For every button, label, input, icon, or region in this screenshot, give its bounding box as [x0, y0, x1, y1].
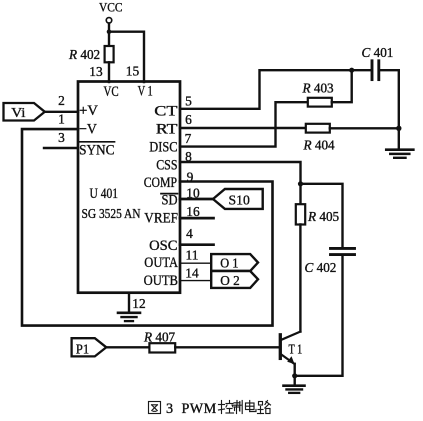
wire VCC stem to R402 [108, 24, 110, 46]
wire R407 to T1 base [175, 346, 279, 348]
resistor R404 [303, 124, 336, 153]
node junction at right ground [396, 126, 401, 131]
svg-text:7: 7 [185, 131, 192, 146]
svg-text:SYNC: SYNC [79, 142, 114, 158]
resistor R402 [68, 46, 114, 62]
svg-text:OUTA: OUTA [144, 255, 178, 271]
connector Vi [4, 103, 45, 121]
wire R403 right up to C401 node [332, 70, 352, 102]
wire VCC branch to pin 15 [109, 32, 144, 82]
svg-text:RT: RT [156, 121, 178, 137]
svg-text:8: 8 [185, 149, 192, 164]
node junction at C401 left [349, 68, 354, 73]
svg-text:U 401: U 401 [90, 186, 119, 202]
svg-text:O 1: O 1 [220, 257, 238, 272]
wire feedback loop pin 1 to COMP pin 9 [22, 129, 273, 326]
resistor R407 [143, 330, 176, 353]
svg-text:VC: VC [104, 84, 119, 100]
svg-text:R 402: R 402 [68, 47, 100, 62]
resistor R405 [296, 204, 340, 224]
char 控 [219, 401, 234, 414]
wire Vi to pin 2 [45, 111, 78, 113]
svg-text:3: 3 [166, 401, 173, 417]
svg-text:V 1: V 1 [138, 84, 153, 100]
wire C402 bottom to emitter node [297, 256, 343, 376]
wire C401 right down to ground node [380, 70, 399, 128]
svg-text:PWM: PWM [182, 401, 217, 417]
wire junction to C402 top [301, 184, 343, 247]
svg-text:3: 3 [58, 130, 65, 145]
wire OUTA pin 11 to O1 [180, 262, 211, 264]
IC U401 SG3525AN [78, 82, 180, 293]
char 图 [149, 402, 161, 414]
svg-text:SD: SD [162, 192, 178, 208]
wire pin 12 to ground [128, 293, 130, 312]
svg-text:12: 12 [132, 296, 145, 311]
node VCC terminal [99, 1, 123, 24]
wire CSS pin 8 to R405 [180, 162, 301, 204]
wire P1 to R407 [106, 346, 149, 348]
svg-text:1: 1 [58, 111, 65, 126]
wire DISC pin 7 up to R403 [180, 102, 308, 146]
svg-text:COMP: COMP [144, 175, 177, 191]
svg-text:OUTB: OUTB [144, 273, 179, 289]
connector O1 [211, 254, 258, 271]
svg-text:15: 15 [126, 63, 140, 78]
node junction dot below VCC [107, 29, 112, 34]
connector O2 [211, 271, 258, 289]
svg-text:P1: P1 [76, 342, 89, 357]
resistor R403 [302, 81, 335, 107]
wire SD pin 10 to S10 [180, 198, 214, 201]
svg-text:OSC: OSC [149, 238, 177, 254]
wire R402 to pin 13 [108, 62, 110, 82]
svg-text:CSS: CSS [156, 158, 177, 174]
svg-text:11: 11 [186, 247, 199, 262]
svg-text:14: 14 [185, 266, 199, 281]
wire OSC pin 4 stub [180, 243, 214, 246]
wire T1 emitter down to node [294, 364, 296, 376]
wire OUTB pin 14 to O2 [180, 280, 211, 282]
connector P1 [72, 338, 107, 356]
wire VREF pin 16 stub [180, 217, 214, 220]
capacitor C401 [352, 45, 394, 80]
svg-text:DISC: DISC [149, 139, 177, 155]
svg-text:VCC: VCC [99, 1, 123, 15]
char 制 [233, 401, 242, 414]
svg-text:VREF: VREF [144, 211, 178, 227]
connector S10 [213, 189, 263, 209]
node emitter junction [292, 373, 297, 378]
svg-text:−V: −V [79, 122, 97, 138]
ground right of R404/C401 [386, 128, 413, 158]
ground under T1 [284, 376, 305, 393]
char 电 [246, 401, 257, 412]
svg-text:C 402: C 402 [305, 260, 337, 275]
svg-text:R 405: R 405 [307, 209, 340, 224]
svg-text:9: 9 [187, 169, 194, 184]
capacitor C402 [305, 248, 355, 274]
svg-text:Vi: Vi [11, 106, 25, 121]
wire RT pin 6 to R404 [180, 127, 306, 129]
svg-text:SG 3525 AN: SG 3525 AN [82, 206, 141, 221]
svg-text:O 2: O 2 [220, 274, 240, 289]
ground under pin 12 [118, 313, 140, 321]
svg-text:C 401: C 401 [362, 45, 394, 60]
char 路 [258, 401, 271, 414]
svg-text:16: 16 [186, 204, 200, 219]
wire R404 to ground node [330, 127, 399, 129]
pin label SYNC with overline [79, 142, 114, 159]
wire R405 to T1 collector [299, 225, 301, 332]
svg-text:4: 4 [186, 226, 193, 241]
wire CT pin 5 to C401 node [180, 70, 352, 109]
svg-text:+V: +V [79, 103, 98, 119]
svg-text:T 1: T 1 [289, 341, 303, 356]
pin label SD with overline [161, 192, 178, 208]
wire SYNC pin 3 stub [44, 147, 78, 149]
svg-text:R 407: R 407 [143, 330, 176, 345]
svg-text:5: 5 [185, 93, 192, 108]
svg-text:2: 2 [58, 93, 65, 108]
svg-text:R 404: R 404 [303, 138, 336, 153]
svg-text:R 403: R 403 [302, 81, 335, 96]
svg-text:S10: S10 [229, 193, 250, 208]
caption: 图 3 PWM 控制电路 [149, 401, 271, 418]
transistor T1 [280, 332, 302, 365]
svg-text:13: 13 [89, 64, 103, 79]
svg-text:10: 10 [186, 186, 200, 201]
node junction above R405 [298, 181, 303, 186]
svg-text:6: 6 [185, 112, 192, 127]
svg-text:CT: CT [154, 103, 177, 119]
